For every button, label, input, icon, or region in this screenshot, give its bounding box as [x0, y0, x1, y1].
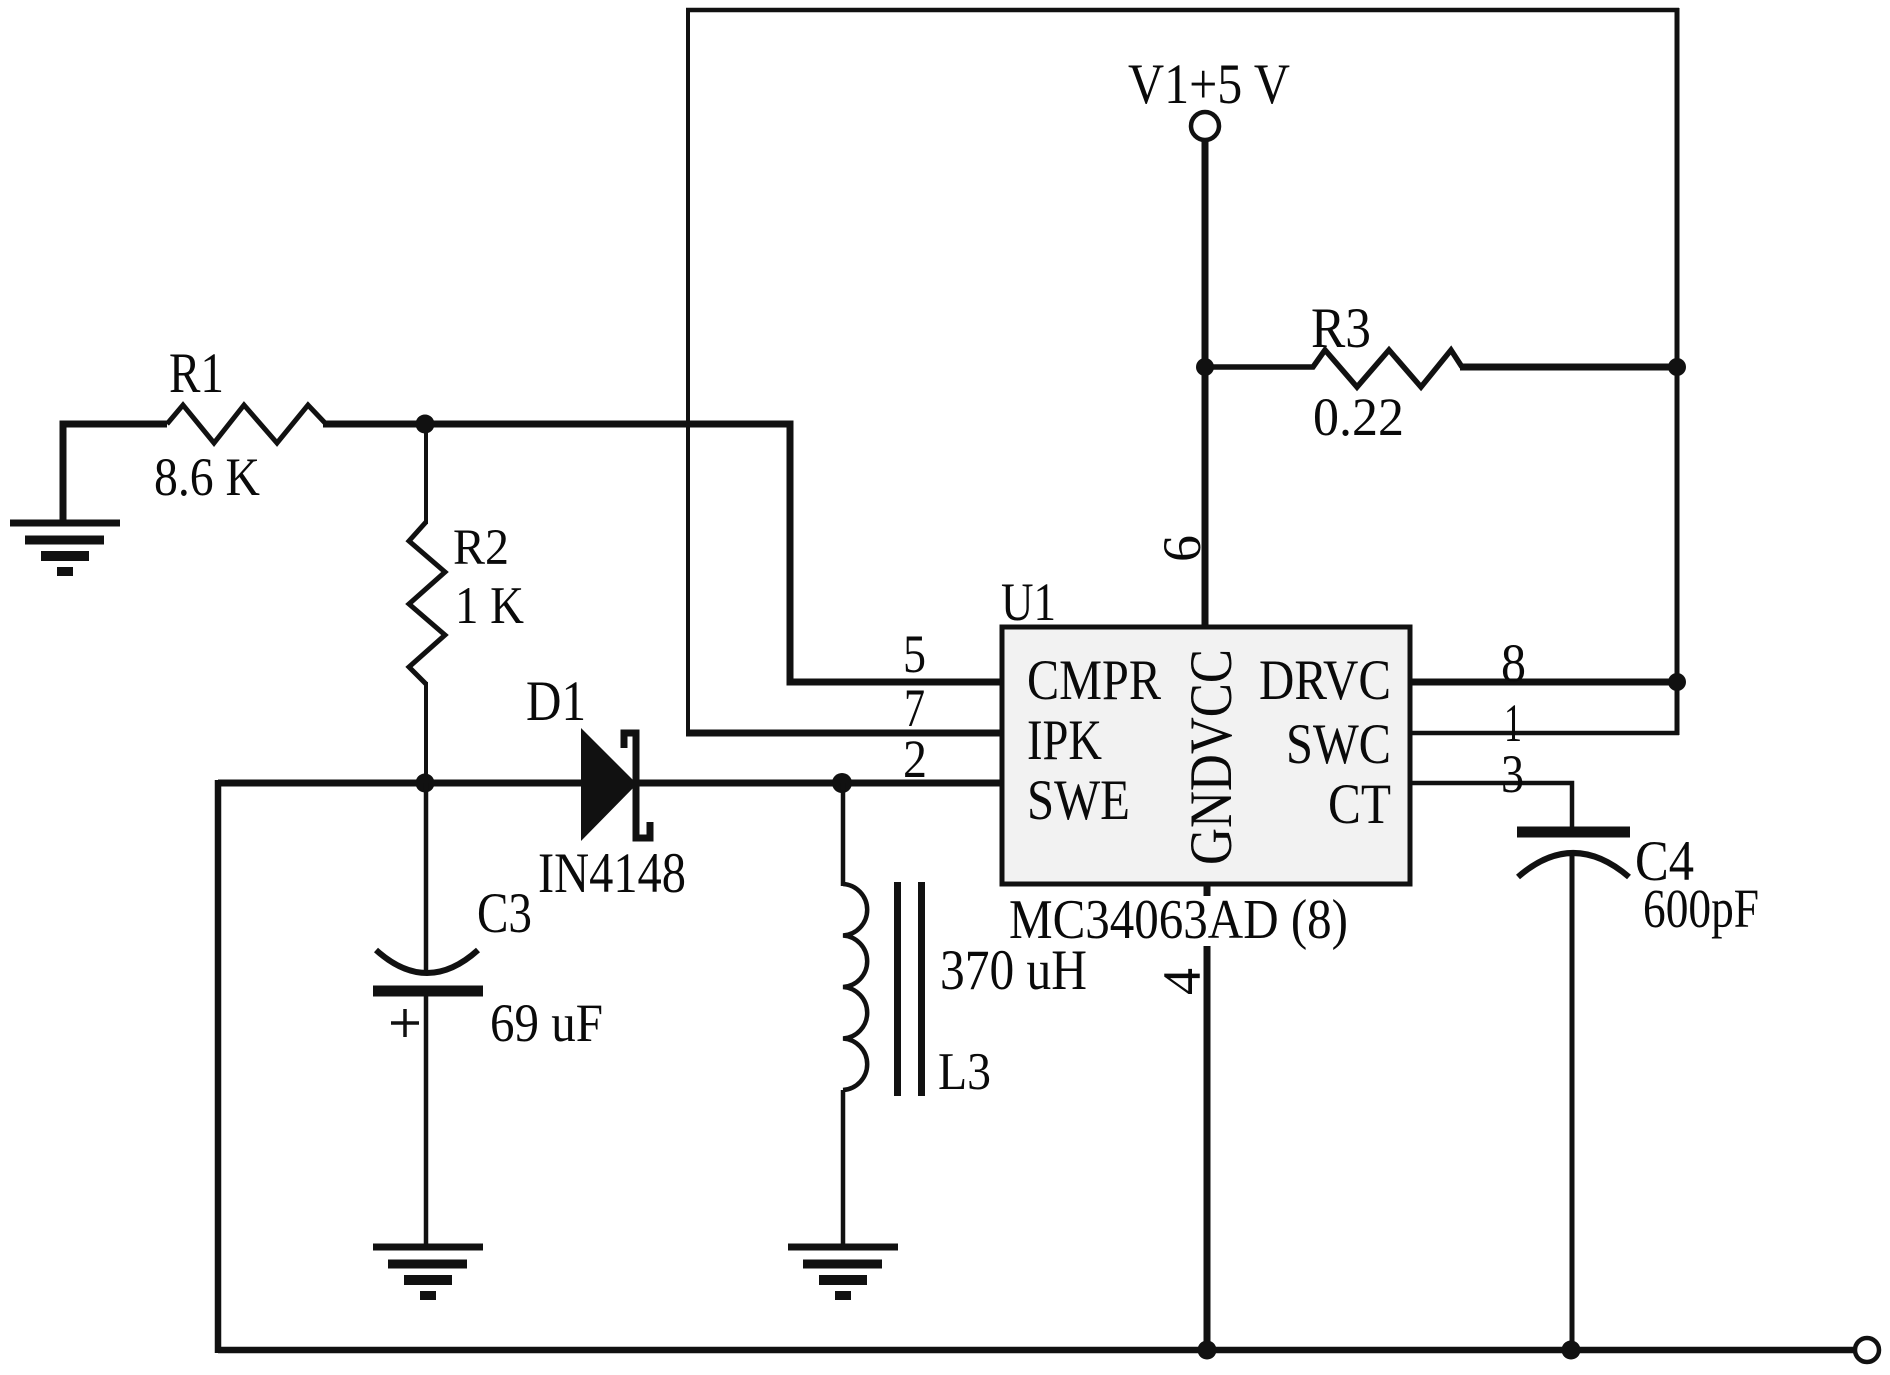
wire: SWC pin 1 horizontal — [1410, 731, 1679, 736]
wire: C3 bottom lead — [424, 996, 429, 1247]
node junction dot R3 right — [1668, 358, 1686, 376]
wire: DRVC pin 8 horizontal — [1410, 679, 1677, 686]
diode D1 cathode bar — [624, 733, 650, 838]
wire: upper loop right vertical (to SWC pin 1) — [1675, 8, 1680, 735]
svg-text:V1+5 V: V1+5 V — [1128, 53, 1290, 116]
wire: C4 bottom lead — [1570, 856, 1575, 1353]
wire: pin 4 vertical below U1 — [1204, 884, 1211, 1353]
resistor R2 — [409, 522, 445, 684]
wire: L3 bottom lead — [841, 1090, 846, 1247]
svg-text:R3: R3 — [1311, 297, 1371, 360]
svg-text:R1: R1 — [169, 342, 224, 405]
ground (left, at R1) — [10, 523, 120, 576]
terminal output circle — [1855, 1338, 1879, 1362]
node junction dot pin8/right bus — [1668, 673, 1686, 691]
node junction dot R3 left — [1196, 358, 1214, 376]
svg-text:MC34063AD (8): MC34063AD (8) — [1009, 889, 1348, 951]
resistor R1 — [167, 405, 326, 443]
svg-text:SWE: SWE — [1027, 769, 1130, 832]
node junction dot R1/R2 — [416, 415, 435, 434]
svg-text:IN4148: IN4148 — [538, 842, 686, 905]
wire: R2 top lead — [424, 424, 428, 524]
svg-text:8: 8 — [1501, 633, 1526, 693]
svg-text:4: 4 — [1152, 968, 1212, 995]
wire: R3 right to upper loop — [1460, 364, 1679, 371]
wire: pin 6 vertical from V1 terminal to U1 top — [1202, 141, 1209, 630]
wire: L3 top lead — [841, 783, 846, 886]
wire: C3 top lead — [424, 783, 429, 974]
node junction dot R2/C3/diode — [416, 774, 435, 793]
svg-text:R2: R2 — [453, 520, 509, 576]
wire: IPK pin 7 horizontal — [686, 730, 1002, 737]
ground (under L3) — [788, 1247, 898, 1300]
wire: R2 bottom lead — [424, 682, 428, 785]
wire: left rail down — [215, 780, 222, 1353]
svg-text:CT: CT — [1328, 773, 1391, 836]
node junction dot L3 tap — [832, 773, 852, 793]
wire: SWE pin 2 horizontal (output node) — [218, 780, 1002, 787]
svg-text:5: 5 — [903, 624, 926, 684]
node junction dot pin4/bottom rail — [1198, 1341, 1217, 1360]
wire: R1 left lead and down to ground — [63, 424, 167, 523]
capacitor C3 curved plate — [376, 950, 478, 973]
capacitor C3 polarity plus — [391, 1009, 419, 1037]
diode D1 (anode triangle) — [581, 728, 637, 841]
svg-text:IPK: IPK — [1027, 709, 1102, 772]
svg-text:CMPR: CMPR — [1027, 649, 1161, 712]
svg-text:3: 3 — [1501, 744, 1524, 804]
wire: branch down to CMPR pin 5 — [790, 421, 1002, 683]
wire: bottom rail — [218, 1347, 1855, 1354]
svg-text:GNDVCC: GNDVCC — [1178, 649, 1244, 865]
ground (under C3) — [373, 1247, 483, 1300]
svg-text:L3: L3 — [938, 1043, 991, 1101]
svg-text:C3: C3 — [477, 882, 532, 945]
capacitor C3 flat plate — [373, 986, 483, 997]
svg-text:8.6 K: 8.6 K — [154, 447, 260, 507]
wire: R1 right to CMPR branch — [323, 421, 790, 428]
svg-text:0.22: 0.22 — [1313, 387, 1404, 447]
svg-text:D1: D1 — [526, 670, 586, 733]
resistor R3 — [1205, 350, 1462, 387]
svg-text:600pF: 600pF — [1643, 878, 1759, 939]
svg-text:69 uF: 69 uF — [490, 993, 603, 1053]
node junction dot C4/bottom rail — [1562, 1341, 1581, 1360]
part number MC34063AD (8) — [1004, 889, 1354, 951]
terminal V1 circle — [1191, 112, 1219, 140]
svg-text:DRVC: DRVC — [1259, 649, 1391, 712]
wire: CT pin 3 to C4 — [1410, 783, 1572, 827]
wire: upper loop left vertical (to IPK pin 7) — [686, 8, 690, 733]
inductor L3 core bar 1 — [894, 882, 901, 1096]
inductor L3 core bar 2 — [918, 882, 925, 1096]
svg-text:SWC: SWC — [1286, 713, 1391, 776]
svg-text:6: 6 — [1152, 535, 1212, 562]
svg-text:2: 2 — [903, 729, 927, 789]
svg-text:U1: U1 — [1001, 572, 1056, 632]
wire: top bus horizontal of upper loop — [686, 8, 1679, 13]
capacitor C4 flat plate — [1517, 827, 1630, 838]
inductor L3 winding — [843, 884, 867, 1090]
capacitor C4 curved plate — [1518, 853, 1629, 877]
svg-text:1 K: 1 K — [455, 577, 524, 635]
op-amp U1 body (MC34063AD) — [1002, 627, 1410, 884]
